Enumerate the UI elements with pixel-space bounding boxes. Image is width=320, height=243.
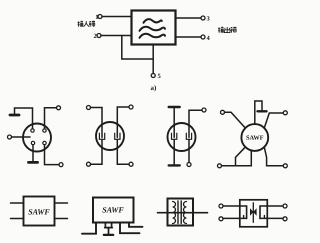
wire TL [223, 205, 247, 207]
terminal BR [283, 217, 287, 221]
wire 2 to box [101, 35, 132, 37]
wire box to terminal 3 [176, 17, 202, 19]
lead R1 [55, 202, 68, 204]
bottom T-bar [169, 164, 180, 166]
pin D [120, 223, 140, 234]
transducer cup left [172, 133, 177, 139]
IDT bar right [259, 206, 261, 218]
terminal TL [221, 110, 225, 114]
label 输入端 (input) [78, 21, 96, 27]
label 2 [94, 34, 97, 38]
core line 1 [177, 201, 179, 224]
terminal BR [187, 163, 191, 167]
terminal TR [283, 111, 287, 115]
lead L1 [11, 202, 24, 204]
ground loop wire from 2 to pin5 [122, 36, 153, 60]
label 3 [207, 16, 210, 20]
terminal TR [202, 108, 206, 112]
wire TR [264, 113, 283, 128]
label SAWF in can X4 [246, 135, 263, 139]
top T-bar [169, 106, 180, 108]
left lead bottom [173, 139, 175, 165]
lead R2 [55, 218, 68, 220]
label a) [151, 85, 156, 91]
wire 1 to box [102, 16, 132, 18]
IDT bar left [246, 206, 248, 218]
terminal TR [129, 105, 133, 109]
wire bottom center [236, 151, 252, 166]
ground bar TL [10, 114, 19, 117]
terminal TR [283, 204, 287, 208]
IDT pin stub left [243, 216, 245, 219]
terminal BL [219, 217, 223, 221]
wire left terminal into can [12, 136, 31, 138]
wire BR [260, 217, 283, 219]
ground stem [108, 228, 110, 235]
transducer cup right [115, 133, 120, 139]
can circle X1 [23, 124, 51, 152]
terminal TL [87, 106, 91, 110]
label 输出端 (output) [218, 27, 236, 33]
wire box to terminal 4 [176, 36, 202, 38]
wire right bottom lead [117, 139, 129, 164]
wire BR [264, 147, 283, 166]
terminal 1 [98, 15, 102, 19]
pin BL [31, 141, 34, 144]
wave symbol line 2 [140, 27, 166, 31]
terminal BR [59, 163, 63, 167]
label 1 [96, 15, 98, 19]
wire TR [117, 107, 129, 137]
box Z3 [168, 199, 194, 226]
pin A [82, 223, 96, 234]
pin E [129, 223, 143, 227]
terminal BR [283, 164, 287, 168]
pin TL [31, 129, 34, 132]
wire TR to terminal [45, 108, 57, 129]
box Z2 [93, 198, 134, 223]
label 4 [207, 36, 210, 40]
box Z4 [240, 200, 267, 227]
wire TL to ground [15, 108, 33, 129]
pin TR [43, 129, 46, 132]
wave symbol line 3 [140, 34, 166, 38]
top lead to ground [255, 101, 262, 124]
wire to pin 5 [152, 45, 154, 74]
filter box U1 (diagram a) [132, 11, 176, 45]
can circle X4 [241, 124, 268, 151]
wire TL [91, 108, 103, 138]
box Z1 [24, 197, 55, 226]
terminal BL [87, 162, 91, 166]
label SAWF in box Z2 [102, 207, 123, 212]
IDT pin stub right [263, 216, 265, 219]
label 5 [158, 74, 161, 78]
center line [252, 203, 254, 223]
terminal TR [57, 106, 61, 110]
label SAWF in box Z1 [28, 209, 49, 214]
terminal BR [129, 162, 133, 166]
wire left bottom lead [91, 139, 103, 164]
terminal BL [218, 164, 222, 168]
ground bar BL [29, 161, 38, 164]
wave symbol line 1 [144, 19, 162, 23]
can circle X2 [96, 122, 124, 150]
left coil [173, 202, 176, 224]
arrow left (row3 c4) [250, 208, 253, 216]
wire BR to terminal [45, 145, 60, 165]
lead L2 [11, 218, 24, 220]
arrow right (row3 c4) [253, 208, 256, 216]
left lead top [173, 107, 175, 137]
terminal 5 [151, 74, 155, 78]
right coil [183, 202, 186, 224]
transducer cup right [186, 133, 191, 139]
through wire [158, 212, 208, 214]
terminal left [8, 135, 12, 139]
ground bar [104, 234, 113, 236]
transducer cup left [99, 133, 104, 139]
pins B C [105, 223, 113, 228]
wire TL [225, 112, 246, 128]
wire BL [223, 217, 247, 219]
terminal TL [219, 204, 223, 208]
core line 2 [180, 201, 182, 224]
terminal 4 [201, 35, 205, 39]
terminal 2 [97, 34, 101, 38]
wire TR [260, 205, 283, 207]
pin BR [43, 141, 46, 144]
wire BL to ground [32, 145, 34, 162]
terminal 3 [201, 16, 205, 20]
right lead top to terminal [189, 110, 202, 137]
ground bar top [258, 110, 267, 112]
wire BL [222, 147, 246, 166]
right lead bottom [188, 139, 190, 162]
can circle X3 [168, 123, 196, 151]
